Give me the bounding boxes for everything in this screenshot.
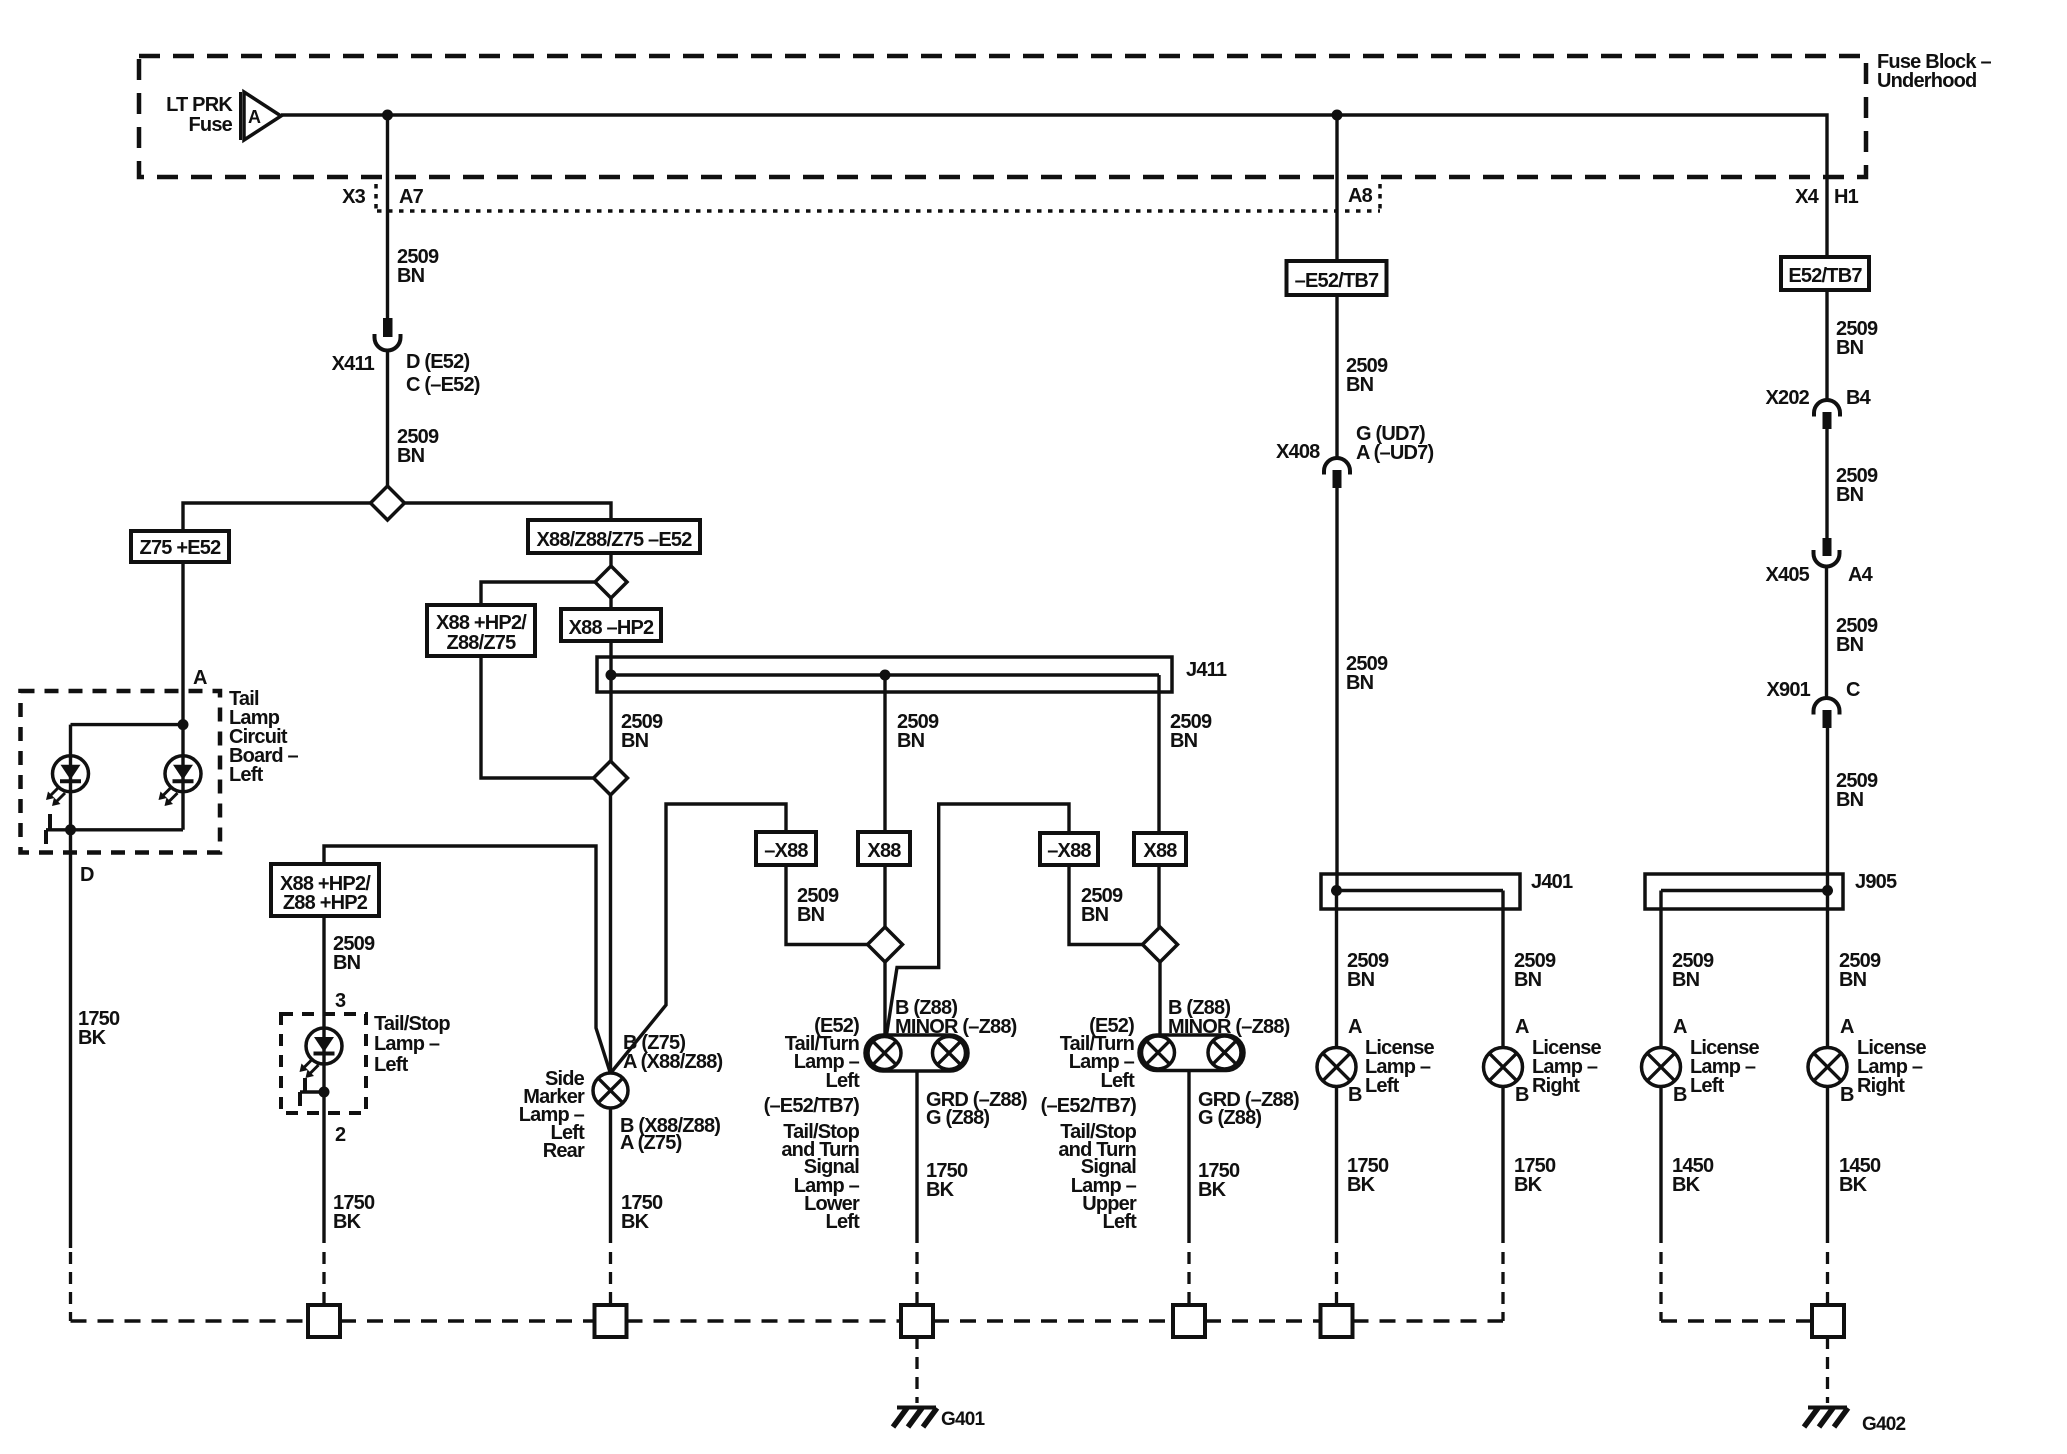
svg-text:BK: BK bbox=[1672, 1174, 1701, 1196]
svg-text:BN: BN bbox=[1836, 337, 1864, 359]
svg-text:BN: BN bbox=[1081, 904, 1109, 926]
svg-text:BN: BN bbox=[1836, 789, 1864, 811]
svg-text:Right: Right bbox=[1532, 1075, 1580, 1097]
wire: X88 -HP2 through J411 to splice S3 bbox=[609, 641, 612, 761]
svg-text:Z88 +HP2: Z88 +HP2 bbox=[283, 892, 368, 914]
svg-text:Left: Left bbox=[826, 1211, 861, 1233]
connector row X3/A7 dotted line bbox=[342, 184, 1859, 212]
label: tail/turn lamp pins lower bbox=[895, 997, 1027, 1129]
svg-text:BK: BK bbox=[621, 1211, 650, 1233]
lamp: license lamp - left bbox=[1317, 1048, 1356, 1087]
wire: X88+HP2/Z88+HP2 feed to side marker bbox=[324, 846, 610, 1072]
wire: J401 right leg to license lamp right bbox=[1501, 891, 1504, 1049]
svg-text:BN: BN bbox=[797, 904, 825, 926]
ground bus square: license left bbox=[1321, 1305, 1353, 1337]
svg-text:Left: Left bbox=[1103, 1211, 1138, 1233]
svg-text:LT PRK: LT PRK bbox=[166, 94, 233, 116]
svg-text:BK: BK bbox=[78, 1027, 107, 1049]
svg-text:MINOR (–Z88): MINOR (–Z88) bbox=[895, 1016, 1017, 1038]
svg-text:A: A bbox=[248, 107, 261, 127]
wire: S2 bottom to X88 -HP2 bbox=[609, 598, 612, 609]
svg-text:G401: G401 bbox=[941, 1409, 986, 1430]
option box X88 -HP2 bbox=[561, 609, 661, 641]
svg-text:X901: X901 bbox=[1766, 679, 1810, 701]
wire: license left 1750 BK bbox=[1335, 1087, 1338, 1244]
svg-text:G (Z88): G (Z88) bbox=[1198, 1107, 1261, 1129]
ground bus square: license right (J905) bbox=[1812, 1305, 1844, 1337]
svg-text:BN: BN bbox=[333, 952, 361, 974]
svg-text:BK: BK bbox=[1347, 1174, 1376, 1196]
label: side marker pins bbox=[620, 1032, 723, 1154]
wire: J401 left leg to license lamp left bbox=[1335, 891, 1338, 1049]
fuse A: LT PRK Fuse bbox=[166, 92, 281, 140]
wire: J905 internal bus bbox=[1661, 889, 1828, 892]
svg-text:X88 –HP2: X88 –HP2 bbox=[569, 617, 654, 639]
label: License Lamp - Right bbox=[1857, 1037, 1927, 1097]
label: License Lamp - Left bbox=[1365, 1037, 1435, 1097]
svg-text:Left: Left bbox=[1365, 1075, 1400, 1097]
label: tail/turn lamp pins upper bbox=[1168, 997, 1299, 1129]
wire: X901 to J905 and right license lamp bbox=[1826, 728, 1829, 1048]
wire: 1750 BK pin D down (solid) bbox=[69, 830, 72, 1248]
svg-text:Z88/Z75: Z88/Z75 bbox=[447, 632, 517, 654]
lamp: license lamp - right bbox=[1484, 1048, 1523, 1087]
wire: 2509 BN drop from fuse feed to X411 bbox=[386, 115, 389, 318]
wire: option box to splice S2 bbox=[609, 553, 612, 566]
splice diamond S5 bbox=[1143, 927, 1178, 962]
option box X88 (first) bbox=[858, 832, 910, 865]
svg-text:Left: Left bbox=[826, 1070, 861, 1092]
svg-text:J905: J905 bbox=[1855, 871, 1897, 893]
wire: J401 internal bus bbox=[1337, 889, 1504, 892]
svg-text:X405: X405 bbox=[1765, 564, 1809, 586]
svg-text:X88 +HP2/: X88 +HP2/ bbox=[436, 612, 527, 634]
label: License Lamp - Left bbox=[1690, 1037, 1760, 1097]
node: board ground junction bbox=[65, 824, 76, 835]
svg-text:BK: BK bbox=[333, 1211, 362, 1233]
wire: dashed drop to G402 bbox=[1826, 1337, 1829, 1403]
label: Tail Lamp Circuit Board - Left bbox=[229, 688, 299, 786]
svg-text:X408: X408 bbox=[1276, 441, 1320, 463]
wire: -X88 to splice S5 bbox=[1069, 865, 1143, 945]
ground G402 bbox=[1804, 1408, 1906, 1436]
svg-text:A: A bbox=[1840, 1016, 1854, 1038]
label: Side Marker Lamp - Left Rear bbox=[519, 1068, 585, 1162]
wire: board right leg bbox=[181, 725, 184, 830]
svg-text:BK: BK bbox=[1198, 1179, 1227, 1201]
svg-text:C: C bbox=[1846, 679, 1860, 701]
svg-text:X88/Z88/Z75 –E52: X88/Z88/Z75 –E52 bbox=[536, 529, 692, 551]
node: J411 left bbox=[606, 670, 617, 681]
svg-text:–E52/TB7: –E52/TB7 bbox=[1295, 270, 1379, 292]
wire: splice S1 left branch to Z75 +E52 bbox=[183, 503, 371, 531]
wire: side marker 1750 BK down bbox=[609, 1108, 612, 1243]
wire: X405 to X901 bbox=[1825, 566, 1828, 699]
svg-text:Left: Left bbox=[1101, 1070, 1136, 1092]
wire: E52/TB7 to X202 bbox=[1825, 290, 1828, 401]
svg-text:BN: BN bbox=[1346, 374, 1374, 396]
wire: 2509 BN X411 to splice S1 bbox=[386, 351, 389, 487]
svg-text:BK: BK bbox=[1514, 1174, 1543, 1196]
label: License Lamp - Right bbox=[1532, 1037, 1602, 1097]
svg-text:A (X88/Z88): A (X88/Z88) bbox=[623, 1051, 723, 1073]
option box Z75 +E52 bbox=[131, 531, 229, 562]
wire: license right 1750 BK bbox=[1501, 1087, 1504, 1244]
wire: board internal bottom rail bbox=[46, 828, 183, 831]
wire: S2 left branch down to X88 +HP2/Z88/Z75 bbox=[481, 582, 595, 605]
svg-text:D (E52): D (E52) bbox=[406, 351, 469, 373]
svg-text:MINOR (–Z88): MINOR (–Z88) bbox=[1168, 1016, 1290, 1038]
svg-text:BK: BK bbox=[1839, 1174, 1868, 1196]
svg-text:BN: BN bbox=[1346, 672, 1374, 694]
svg-text:E52/TB7: E52/TB7 bbox=[1788, 265, 1862, 287]
svg-text:A: A bbox=[193, 667, 207, 689]
node: junction at X3 branch bbox=[382, 110, 393, 121]
wire: dashed to ground bus square bbox=[915, 1252, 918, 1305]
wire: S5 down to tail/turn lamp upper bbox=[1158, 962, 1161, 1036]
wire: J411 center leg down to splice S4 bbox=[883, 675, 886, 927]
svg-text:A (Z75): A (Z75) bbox=[620, 1132, 682, 1154]
svg-text:BN: BN bbox=[621, 730, 649, 752]
case ground ticks at board exit bbox=[48, 814, 52, 830]
wire: -X88 to splice S4 bbox=[786, 865, 868, 945]
label: (-E52/TB7) Tail/Stop and Turn Signal Lamp - Upper Left bbox=[1041, 1095, 1138, 1233]
option box X88 (second) bbox=[1134, 833, 1186, 865]
wire: main feed from fuse to right corner bbox=[281, 115, 1827, 257]
label: Tail/Stop Lamp - Left bbox=[374, 1013, 450, 1076]
wire: -X88 feed to side marker bbox=[612, 804, 787, 1072]
option box -X88 (second) bbox=[1040, 833, 1098, 865]
splice bus J411 bbox=[597, 657, 1172, 692]
svg-text:X411: X411 bbox=[332, 353, 375, 375]
splice bus J905 bbox=[1645, 874, 1843, 909]
svg-text:BK: BK bbox=[926, 1179, 955, 1201]
svg-text:BN: BN bbox=[1839, 969, 1867, 991]
splice diamond S1 bbox=[371, 486, 405, 520]
ground bus square: tail/turn lower bbox=[901, 1305, 933, 1337]
node: board junction bbox=[178, 719, 189, 730]
wire: J905 left leg bbox=[1659, 891, 1662, 1049]
node: J411 center bbox=[880, 670, 891, 681]
ground bus dashed (left group) bbox=[71, 1319, 1504, 1323]
node: J401 bbox=[1331, 885, 1342, 896]
wire: S4 down to tail/turn lamp left bbox=[883, 962, 886, 1036]
label: (-E52/TB7) Tail/Stop and Turn Signal Lamp - Lower Left bbox=[764, 1095, 861, 1233]
wire: license left 1450 BK bbox=[1659, 1087, 1662, 1244]
connector X405 bbox=[1765, 538, 1873, 586]
svg-text:A8: A8 bbox=[1348, 185, 1373, 207]
lamp: license lamp - left (J905) bbox=[1642, 1048, 1681, 1087]
svg-text:–X88: –X88 bbox=[764, 840, 808, 862]
LED D2 bbox=[159, 756, 202, 806]
lamp: license lamp - right (J905) bbox=[1808, 1048, 1847, 1087]
svg-text:B: B bbox=[1348, 1084, 1362, 1106]
lamp: side marker left rear bbox=[593, 1073, 628, 1108]
ground bus square: tail/stop bbox=[308, 1305, 340, 1337]
svg-text:Underhood: Underhood bbox=[1877, 70, 1976, 92]
svg-text:B: B bbox=[1673, 1084, 1687, 1106]
svg-text:A (–UD7): A (–UD7) bbox=[1356, 442, 1433, 464]
svg-text:D: D bbox=[80, 864, 94, 886]
svg-text:BN: BN bbox=[1836, 484, 1864, 506]
svg-text:BN: BN bbox=[1672, 969, 1700, 991]
tail lamp circuit board - left dashed box bbox=[21, 691, 221, 853]
wire: dashed to ground bus square bbox=[1187, 1252, 1190, 1305]
svg-text:J401: J401 bbox=[1531, 871, 1573, 893]
ground bus dashed (right group) bbox=[1661, 1319, 1812, 1323]
svg-text:G (Z88): G (Z88) bbox=[926, 1107, 989, 1129]
wire: board left leg bbox=[69, 725, 72, 830]
label: (E52) Tail/Turn Lamp - Left bbox=[785, 1015, 860, 1092]
svg-text:X3: X3 bbox=[342, 186, 366, 208]
LED: tail/stop lamp left bbox=[300, 1028, 343, 1078]
option box X88/Z88/Z75 -E52 bbox=[528, 520, 700, 553]
splice diamond S4 bbox=[868, 927, 903, 962]
svg-text:Lamp –: Lamp – bbox=[374, 1033, 440, 1055]
wire: -E52/TB7 to X408 bbox=[1335, 295, 1338, 458]
wire: tail/stop lamp branch 2509 BN bbox=[322, 916, 325, 1243]
splice bus J401 bbox=[1321, 874, 1520, 909]
wire: X202 to X405 bbox=[1825, 429, 1828, 538]
wire: board internal top rail bbox=[71, 723, 184, 726]
wire: Z75 option to board pin A bbox=[181, 562, 184, 725]
LED D1 bbox=[46, 756, 89, 806]
svg-text:Fuse: Fuse bbox=[189, 114, 233, 136]
splice diamond S3 bbox=[594, 761, 628, 795]
svg-text:BN: BN bbox=[1347, 969, 1375, 991]
label: (E52) Tail/Turn Lamp - Left (upper) bbox=[1060, 1015, 1135, 1092]
svg-text:X202: X202 bbox=[1765, 387, 1809, 409]
svg-text:B: B bbox=[1515, 1084, 1529, 1106]
wire: dashed drop to G401 bbox=[915, 1337, 918, 1403]
svg-text:B4: B4 bbox=[1846, 387, 1872, 409]
svg-text:BN: BN bbox=[1170, 730, 1198, 752]
node: junction at A8 branch bbox=[1332, 110, 1343, 121]
splice diamond S2 bbox=[595, 566, 627, 598]
ground bus square: tail/turn upper bbox=[1173, 1305, 1205, 1337]
svg-text:Left: Left bbox=[229, 764, 264, 786]
wire: J411 right leg down to splice S5 bbox=[1157, 675, 1160, 927]
fuse block - underhood dashed box bbox=[139, 56, 1866, 177]
svg-text:BN: BN bbox=[1836, 634, 1864, 656]
wire: 1750 BK dashed to ground bus bbox=[69, 1252, 72, 1321]
node: J905 bbox=[1822, 885, 1833, 896]
wire: license right 1450 BK bbox=[1826, 1087, 1829, 1244]
svg-text:3: 3 bbox=[335, 990, 346, 1012]
svg-text:BN: BN bbox=[1514, 969, 1542, 991]
wire: J411 internal bus bbox=[611, 673, 1159, 676]
wire: dashed to ground bus square bbox=[322, 1252, 325, 1305]
svg-text:J411: J411 bbox=[1186, 659, 1227, 681]
svg-text:A7: A7 bbox=[399, 186, 424, 208]
connector X202 bbox=[1765, 387, 1871, 429]
ground bus square: side marker bbox=[595, 1305, 627, 1337]
wire: X408 to J401 bbox=[1335, 488, 1338, 891]
option box X88 +HP2/Z88/Z75 bbox=[427, 605, 535, 656]
node: tail/stop ground junction bbox=[319, 1087, 330, 1098]
svg-text:Rear: Rear bbox=[543, 1140, 585, 1162]
wire: dashed to ground bus square bbox=[609, 1252, 612, 1305]
svg-text:BN: BN bbox=[397, 265, 425, 287]
svg-text:(–E52/TB7): (–E52/TB7) bbox=[1041, 1095, 1137, 1117]
svg-text:X4: X4 bbox=[1795, 186, 1820, 208]
svg-text:X88: X88 bbox=[1143, 840, 1177, 862]
option box -X88 (first) bbox=[756, 832, 816, 865]
lamp: tail/turn lamp - left (lower) bbox=[865, 1035, 968, 1071]
option box -E52/TB7 bbox=[1287, 261, 1387, 295]
svg-text:Left: Left bbox=[1690, 1075, 1725, 1097]
svg-text:G402: G402 bbox=[1862, 1414, 1906, 1435]
svg-text:BN: BN bbox=[397, 445, 425, 467]
option box X88 +HP2/Z88 +HP2 bbox=[271, 864, 379, 916]
wire: -X88 upper feed to tail/turn lamp B bbox=[887, 804, 1070, 1035]
svg-text:A: A bbox=[1348, 1016, 1362, 1038]
svg-text:B: B bbox=[1840, 1084, 1854, 1106]
ground G401 bbox=[893, 1408, 986, 1431]
option box E52/TB7 bbox=[1781, 257, 1869, 290]
connector X411 bbox=[332, 318, 480, 396]
svg-text:(–E52/TB7): (–E52/TB7) bbox=[764, 1095, 860, 1117]
svg-text:Z75 +E52: Z75 +E52 bbox=[140, 537, 222, 559]
svg-text:X88: X88 bbox=[867, 840, 901, 862]
svg-text:Tail/Stop: Tail/Stop bbox=[374, 1013, 450, 1035]
wire: tail/turn lower 1750 BK down bbox=[915, 1071, 918, 1243]
svg-text:A: A bbox=[1515, 1016, 1529, 1038]
wire: splice S1 right branch to X88/Z88/Z75 -E52 bbox=[405, 503, 612, 520]
svg-text:Right: Right bbox=[1857, 1075, 1905, 1097]
wire: S3 down to side marker lamp bbox=[609, 795, 612, 1073]
case ground arc tail/stop bbox=[300, 1078, 324, 1106]
svg-text:BN: BN bbox=[897, 730, 925, 752]
svg-text:H1: H1 bbox=[1834, 186, 1859, 208]
svg-text:Left: Left bbox=[374, 1054, 409, 1076]
svg-text:2: 2 bbox=[335, 1124, 346, 1146]
wire: tail/turn upper 1750 BK down bbox=[1187, 1071, 1190, 1244]
connector X901 bbox=[1766, 679, 1860, 728]
svg-text:–X88: –X88 bbox=[1047, 840, 1091, 862]
svg-text:A4: A4 bbox=[1848, 564, 1874, 586]
svg-text:A: A bbox=[1673, 1016, 1687, 1038]
lamp: tail/turn lamp - left (upper) bbox=[1139, 1035, 1244, 1071]
wire: A8 drop to -E52/TB7 bbox=[1335, 115, 1338, 261]
connector X408 bbox=[1276, 423, 1433, 488]
tail/stop lamp dashed box bbox=[281, 1014, 366, 1113]
svg-text:C (–E52): C (–E52) bbox=[406, 374, 480, 396]
wire: X88 +HP2/Z88/Z75 to splice S3 bbox=[481, 656, 594, 778]
